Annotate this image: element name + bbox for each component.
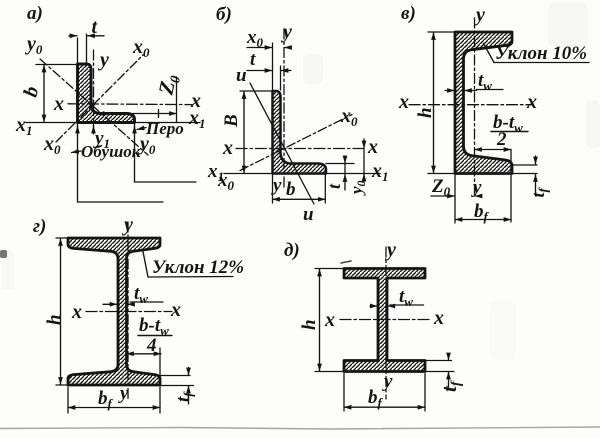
t flange dimension <box>344 156 346 163</box>
x1 axis <box>224 173 380 175</box>
svg-text:в): в) <box>401 3 416 24</box>
svg-text:y: y <box>382 371 393 392</box>
y0 dimension line right <box>363 139 365 148</box>
scan smudge right edge <box>586 100 600 148</box>
y axis <box>127 222 129 400</box>
svg-text:u: u <box>303 204 314 225</box>
angle profile section a (hatched) <box>78 64 135 123</box>
pero leader arrow <box>137 128 146 130</box>
x0 principal axis diagonal <box>240 115 352 171</box>
y axis <box>385 247 387 399</box>
t extension line inner face <box>86 34 88 63</box>
bf dimension line <box>455 219 511 221</box>
small dash mark above flange <box>341 261 351 263</box>
t flange extension line right <box>326 163 354 165</box>
bf extensions down <box>344 374 425 412</box>
svg-text:b: b <box>286 179 296 200</box>
h dimension line <box>319 269 321 371</box>
t dimension line <box>69 35 77 37</box>
svg-text:а): а) <box>27 3 43 24</box>
scan smudge left mid <box>2 250 14 290</box>
h top extension <box>428 31 454 33</box>
svg-text:4: 4 <box>146 335 157 356</box>
I-beam profile section d parallel flanges (hatched) <box>344 269 425 372</box>
b-tw/2 dimension line <box>475 149 512 151</box>
svg-text:x: x <box>398 91 409 113</box>
svg-text:x: x <box>170 299 181 321</box>
x axis <box>68 103 192 106</box>
uklon leader <box>143 249 149 277</box>
tf dimension <box>448 356 450 360</box>
toe stepped line below <box>135 123 197 183</box>
x axis <box>409 104 533 106</box>
tf extensions right <box>425 361 454 372</box>
x1 axis <box>26 122 200 124</box>
tw dimension line <box>103 303 117 305</box>
svg-text:Обушок: Обушок <box>81 142 141 161</box>
centroid mark <box>92 103 95 106</box>
svg-text:y: y <box>122 214 133 236</box>
z0 tick <box>158 110 160 118</box>
z0 dimension line <box>431 195 455 197</box>
y axis <box>93 50 95 133</box>
svg-text:г): г) <box>33 216 46 237</box>
svg-text:y: y <box>281 21 292 43</box>
scan artifact line bottom <box>0 427 600 429</box>
tf dimension <box>535 156 537 164</box>
y0 principal axis diagonal <box>40 59 148 155</box>
x0 top dimension: back face extension <box>272 43 274 90</box>
small dark speck left edge <box>0 250 7 258</box>
svg-text:y: y <box>471 177 482 198</box>
t top dimension line <box>247 70 272 72</box>
x0 principal axis diagonal <box>56 55 143 142</box>
y axis <box>474 18 476 196</box>
svg-text:д): д) <box>284 240 300 261</box>
b bottom extensions <box>273 168 326 203</box>
I-beam profile section g sloped flanges (hatched) <box>68 238 160 385</box>
svg-text:y: y <box>118 383 129 404</box>
u principal axis diagonal <box>250 83 314 204</box>
t flange dim middle segment <box>344 164 346 175</box>
h dimension line <box>433 33 435 174</box>
flange tip extension vertical <box>159 348 161 382</box>
svg-text:x: x <box>526 91 537 113</box>
scan smudge above b profile <box>303 54 323 84</box>
z0 horizontal line <box>97 113 177 115</box>
svg-text:h: h <box>299 319 320 330</box>
svg-text:h: h <box>44 314 65 325</box>
t top dim: inner face extension <box>280 66 282 90</box>
x0 top dimension line <box>247 47 272 49</box>
t extension line back face <box>77 38 79 63</box>
svg-text:y: y <box>98 49 109 71</box>
uklon leader <box>484 44 495 63</box>
y1 stepped line below (back face extension) <box>78 123 164 203</box>
tf dimension <box>188 368 190 376</box>
h top extension <box>56 237 67 239</box>
svg-text:B: B <box>221 114 242 128</box>
tf extensions right <box>160 376 194 386</box>
tw dimension line <box>370 305 377 307</box>
svg-text:Перо: Перо <box>145 119 184 138</box>
svg-text:t: t <box>250 49 256 70</box>
y0 dim middle segment <box>363 149 365 174</box>
h bottom extension <box>315 371 343 373</box>
h bottom extension <box>428 173 454 175</box>
tf extensions right <box>512 165 537 174</box>
b-tw/4 dimension line <box>127 353 162 355</box>
B dimension top extension <box>240 90 271 92</box>
up arrow on toe extension <box>134 126 136 134</box>
svg-text:x: x <box>367 136 378 158</box>
svg-text:x: x <box>71 301 82 323</box>
h top extension <box>315 268 343 270</box>
svg-text:б): б) <box>216 4 232 25</box>
bf dimension line <box>68 407 160 409</box>
bf dimension line <box>344 406 425 408</box>
svg-text:x: x <box>433 307 444 329</box>
b top extension line <box>36 64 77 66</box>
bf extensions down <box>68 387 160 413</box>
svg-text:y: y <box>385 239 396 261</box>
svg-text:x: x <box>222 137 233 159</box>
obushok leader arrow <box>72 151 82 153</box>
scan smudge top right <box>548 2 588 48</box>
svg-text:h: h <box>415 107 436 118</box>
y axis <box>283 29 285 190</box>
up arrow on y axis below <box>93 126 95 134</box>
x axis <box>236 148 367 150</box>
z0 dimension: web back extension down <box>454 175 456 200</box>
channel profile section v (hatched) <box>455 32 512 174</box>
B dimension line <box>243 92 245 174</box>
tw dimension line <box>445 90 455 92</box>
h dimension line <box>60 239 62 385</box>
flange tip extension vertical <box>510 150 512 223</box>
svg-text:2: 2 <box>496 129 507 150</box>
h bottom extension <box>56 384 67 386</box>
svg-text:x: x <box>53 93 64 115</box>
b dimension line <box>43 65 45 122</box>
up arrow on back extension <box>77 126 79 134</box>
svg-text:Уклон 12%: Уклон 12% <box>152 257 244 278</box>
svg-text:u: u <box>236 65 247 86</box>
x axis <box>86 311 172 313</box>
b dimension line <box>273 198 326 200</box>
z0 extension vertical line <box>176 77 178 123</box>
svg-text:y: y <box>474 4 485 26</box>
svg-text:x: x <box>324 309 335 331</box>
scan smudge center low <box>490 300 516 360</box>
x axis <box>340 319 432 321</box>
bf extension left down <box>454 200 456 223</box>
unequal angle profile section b (hatched) <box>273 91 327 174</box>
